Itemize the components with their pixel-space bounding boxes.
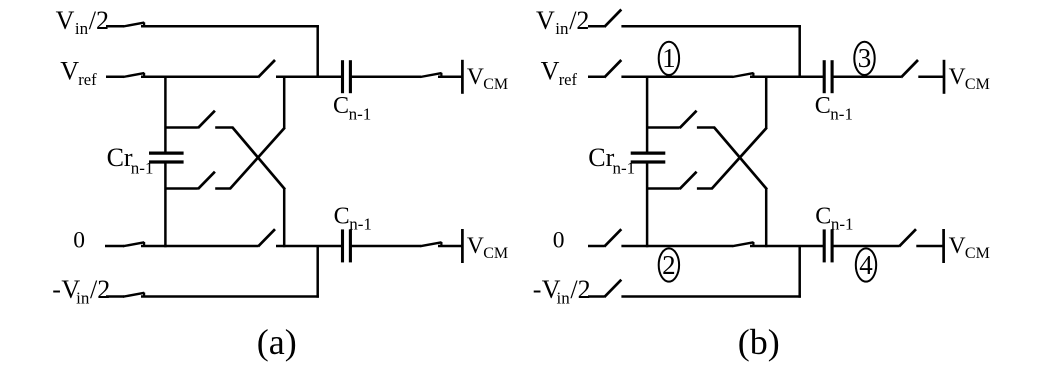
wire cross stub top-left (a) (165, 126, 198, 129)
svg-text:V: V (467, 64, 484, 90)
wire right vertical lower (b) (765, 189, 768, 248)
svg-text:in: in (76, 289, 90, 308)
svg-text:n-1: n-1 (831, 215, 854, 234)
wire cross diagonal down (a) (232, 127, 285, 189)
label Cn-1 bottom (b) (815, 204, 853, 234)
wire left vertical lower (b) (646, 162, 649, 247)
wire to VCM bar bottom (a) (438, 245, 462, 248)
wire right vertical upper (b) (765, 76, 768, 129)
svg-text:V: V (60, 56, 79, 85)
net label VCM bottom (a) (467, 233, 508, 262)
svg-text:CM: CM (483, 76, 508, 93)
svg-text:1: 1 (662, 43, 676, 73)
svg-text:CM: CM (483, 245, 508, 262)
net label VCM top (b) (949, 64, 990, 93)
wire cross stub bottom-mid (b) (697, 187, 713, 190)
switch S8a 0-row open (a) (258, 229, 275, 246)
svg-text:C: C (333, 93, 349, 119)
wire cross stub top-mid (b) (697, 126, 715, 129)
terminal bar VCM top (a) (461, 60, 464, 94)
net label Vref (b) (541, 56, 578, 89)
wire Vref to switch (a) (141, 76, 258, 79)
wire -Vin/2 stub (b) (588, 295, 605, 298)
switch S5b cross top open (b) (680, 111, 697, 128)
net label Vref (a) (60, 56, 97, 89)
svg-text:n-1: n-1 (830, 104, 853, 123)
net label -Vin/2 (b) (533, 275, 591, 307)
wire to VCM bar bottom (b) (916, 245, 943, 248)
switch S6b cross bottom open (b) (680, 172, 697, 189)
wire -Vin/2 corner vertical (a) (316, 246, 319, 298)
switch S1a Vin/2 closed (a) (123, 22, 144, 26)
wire -Vin/2 corner vertical (b) (798, 246, 801, 298)
svg-text:(b): (b) (738, 322, 780, 362)
wire left vertical lower (a) (164, 162, 167, 247)
svg-text:2: 2 (662, 250, 676, 280)
switch S9b output bottom open (b) (899, 229, 916, 246)
node 1 circled (b) (659, 42, 679, 75)
svg-text:ref: ref (559, 70, 578, 89)
switch S8b 0-row closed (b) (732, 242, 753, 246)
net label Vin/2 (a) (56, 6, 109, 38)
svg-text:in: in (557, 289, 571, 308)
wire 0 node to cap (a) (276, 245, 343, 248)
label Cn-1 bottom (a) (334, 204, 372, 234)
node 2 circled (b) (659, 248, 679, 281)
switch S4b output top open (b) (901, 60, 918, 77)
svg-text:/2: /2 (569, 6, 589, 35)
switch S4a output top closed (a) (420, 73, 441, 77)
label Crn-1 (a) (107, 143, 154, 178)
wire to VCM bar top (b) (918, 76, 944, 79)
wire Vref to node 1 (b) (621, 76, 732, 79)
wire -Vin/2 stub (a) (106, 295, 124, 298)
svg-text:in: in (75, 19, 89, 38)
switch S2b Vref open (b) (604, 60, 621, 77)
switch S2a Vref closed (a) (123, 73, 144, 77)
svg-text:n-1: n-1 (349, 215, 372, 234)
switch S3b Vref-row closed (b) (732, 73, 753, 77)
wire cap to output switch top (a) (350, 76, 421, 79)
svg-text:Cr: Cr (588, 143, 614, 172)
capacitor Crn-1 (b) (631, 153, 666, 162)
svg-text:Cr: Cr (107, 143, 133, 172)
svg-text:V: V (467, 233, 484, 259)
net label 0 (a) (73, 227, 85, 253)
wire right vertical lower (a) (283, 189, 286, 248)
switch S10a -Vin/2 closed (a) (123, 293, 144, 297)
node 4 circled (b) (856, 248, 876, 281)
wire cap to output switch bottom (b) (832, 245, 899, 248)
svg-text:CM: CM (965, 245, 990, 262)
wire to VCM bar top (a) (438, 76, 462, 79)
svg-text:C: C (334, 204, 350, 230)
label Cn-1 top (b) (815, 93, 853, 123)
switch S7b 0-input open (b) (604, 229, 621, 246)
net label VCM top (a) (467, 64, 508, 93)
capacitor Cn-1 top (b) (824, 60, 832, 93)
wire cross diagonal up (b) (712, 128, 767, 189)
wire cross stub top-left (b) (647, 126, 680, 129)
wire Vin/2 to corner (b) (621, 25, 801, 28)
svg-text:n-1: n-1 (349, 104, 372, 123)
switch S6a cross bottom open (a) (198, 172, 215, 189)
wire cross stub top-mid (a) (215, 126, 233, 129)
wire node to cap bottom (b) (750, 245, 824, 248)
net label 0 (b) (553, 227, 565, 253)
wire left vertical upper (a) (164, 76, 167, 154)
svg-text:/2: /2 (89, 6, 109, 35)
wire Vref stub (b) (588, 76, 605, 79)
wire Vin/2 to corner (a) (141, 25, 319, 28)
label Cn-1 top (a) (333, 93, 371, 123)
switch S7a 0-input closed (a) (123, 242, 144, 246)
switch S9a output bottom closed (a) (420, 242, 441, 246)
wire 0 stub (b) (588, 245, 605, 248)
svg-text:/2: /2 (570, 275, 590, 304)
wire 0 to node 2 (b) (621, 245, 732, 248)
capacitor Cn-1 bottom (a) (343, 229, 351, 262)
svg-text:-: - (52, 275, 61, 304)
terminal bar VCM bottom (a) (461, 229, 464, 263)
svg-text:V: V (536, 6, 555, 35)
wire Vin/2 corner vertical (a) (316, 25, 319, 77)
net label VCM bottom (b) (949, 233, 990, 262)
svg-text:in: in (555, 19, 569, 38)
wire 0 stub (a) (105, 245, 124, 248)
svg-text:V: V (949, 233, 966, 259)
svg-text:n-1: n-1 (131, 159, 154, 178)
svg-text:V: V (56, 6, 75, 35)
terminal bar VCM bottom (b) (942, 229, 945, 263)
svg-text:-: - (533, 275, 542, 304)
svg-text:CM: CM (965, 76, 990, 93)
switch S3a Vref-row open (a) (258, 60, 275, 77)
caption (b) (738, 322, 780, 362)
net label Vin/2 (b) (536, 6, 589, 38)
svg-text:C: C (815, 93, 831, 119)
switch S5a cross top open (a) (198, 111, 215, 128)
svg-text:/2: /2 (90, 275, 110, 304)
label Crn-1 (b) (588, 143, 635, 178)
wire 0 to switch (a) (141, 245, 258, 248)
switch S10b -Vin/2 open (b) (604, 280, 621, 297)
svg-text:C: C (815, 204, 831, 230)
terminal bar VCM top (b) (943, 60, 946, 94)
svg-text:4: 4 (859, 250, 873, 280)
wire Vin/2 corner vertical (b) (798, 25, 801, 77)
node 3 circled (b) (854, 42, 874, 75)
wire Vin/2 stub (b) (588, 25, 605, 28)
wire left vertical upper (b) (646, 76, 649, 154)
svg-text:(a): (a) (257, 322, 297, 362)
svg-text:3: 3 (858, 43, 872, 73)
svg-text:0: 0 (553, 227, 565, 253)
wire Vin/2 stub (a) (106, 25, 124, 28)
wire Vref node to cap (a) (276, 76, 343, 79)
wire cap to output switch bottom (a) (350, 245, 421, 248)
svg-text:ref: ref (78, 70, 97, 89)
wire cross stub bottom-left (a) (165, 187, 198, 190)
capacitor Cn-1 bottom (b) (824, 229, 832, 262)
wire cross diagonal down (b) (714, 127, 767, 189)
wire cross stub bottom-mid (a) (215, 187, 231, 190)
net label -Vin/2 (a) (52, 275, 110, 307)
capacitor Cn-1 top (a) (343, 60, 351, 93)
svg-text:n-1: n-1 (613, 159, 636, 178)
capacitor Crn-1 (a) (149, 153, 184, 162)
svg-text:0: 0 (73, 227, 85, 253)
wire right vertical upper (a) (283, 76, 286, 129)
wire cross diagonal up (a) (230, 128, 285, 189)
caption (a) (257, 322, 297, 362)
wire cap to output switch top (b) (832, 76, 901, 79)
wire -Vin/2 to corner (b) (621, 295, 801, 298)
wire node to cap (b) (750, 76, 824, 79)
wire Vref stub (a) (106, 76, 124, 79)
switch S1b Vin/2 open (b) (604, 10, 621, 27)
svg-text:V: V (949, 64, 966, 90)
wire cross stub bottom-left (b) (647, 187, 680, 190)
wire -Vin/2 to corner (a) (141, 295, 319, 298)
svg-text:V: V (541, 56, 560, 85)
